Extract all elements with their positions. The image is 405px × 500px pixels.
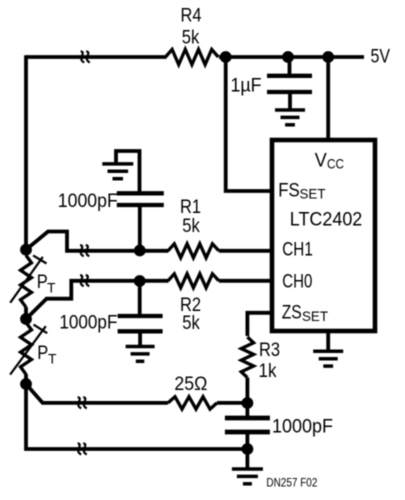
svg-text:5V: 5V	[371, 45, 391, 67]
label R2	[180, 294, 201, 316]
junction node A dot (CH1 tap)	[20, 244, 32, 256]
label C3 1000pF	[59, 312, 117, 334]
pin label FSSET	[278, 180, 326, 202]
label R1 value 5k	[182, 215, 200, 237]
svg-text:T: T	[48, 351, 57, 367]
capacitor C3 1000pF	[118, 281, 163, 331]
svg-text:1000pF: 1000pF	[58, 190, 118, 212]
junction node C dot (25ohm tap)	[20, 378, 32, 390]
label R3	[259, 339, 280, 361]
wire PT1 to node B	[24, 307, 28, 319]
svg-text:5k: 5k	[182, 312, 200, 334]
capacitor C1 1uF	[267, 57, 312, 92]
svg-text:ZS: ZS	[282, 302, 302, 324]
potentiometer PT2 (platinum RTD)	[21, 323, 32, 375]
svg-text:1000pF: 1000pF	[59, 312, 117, 334]
label DN257 F02	[266, 478, 317, 490]
label C4 1000pF	[272, 416, 333, 438]
label PT2	[37, 342, 57, 367]
wire ZSSET net	[247, 313, 270, 336]
wire left rail upper segment	[24, 55, 28, 250]
svg-text:CC: CC	[327, 156, 344, 172]
svg-text:V: V	[315, 150, 327, 172]
capacitor C4 1000pF	[225, 403, 270, 449]
label R1	[180, 196, 201, 218]
svg-text:5k: 5k	[182, 215, 200, 237]
wire break mark CH0	[80, 275, 89, 286]
label R4 value 5k	[182, 27, 200, 49]
wire R3 to cap node	[245, 378, 249, 403]
capacitor C2 1000pF	[117, 193, 164, 250]
svg-text:1000pF: 1000pF	[272, 416, 333, 438]
ground for LTC2402	[313, 331, 343, 366]
svg-text:SET: SET	[302, 308, 328, 324]
label R4	[181, 4, 202, 26]
svg-text:P: P	[37, 342, 48, 364]
resistor R3	[241, 337, 253, 378]
svg-text:T: T	[47, 280, 56, 296]
pin label VCC	[315, 150, 344, 172]
resistor R5 25ohm	[168, 397, 217, 409]
pin label CH1	[282, 239, 313, 261]
wire left rail lower + bottom rail	[26, 384, 247, 449]
svg-text:LTC2402: LTC2402	[290, 209, 363, 231]
trimmer bar PT1	[10, 255, 46, 302]
svg-text:1k: 1k	[259, 360, 277, 382]
pin label ZSSET	[282, 302, 329, 324]
wire CH0 net left tap	[26, 281, 169, 319]
wire VCC stem	[326, 57, 330, 140]
potentiometer PT1 (platinum RTD)	[21, 255, 32, 307]
junction node B dot (CH0 tap)	[20, 313, 32, 325]
junction dot top-rail/VCC	[322, 51, 334, 63]
label 1uF	[231, 74, 262, 96]
resistor R1	[168, 244, 219, 258]
label PT1	[37, 271, 56, 296]
svg-text:1µF: 1µF	[231, 74, 262, 96]
ground wire for C2	[116, 151, 140, 192]
label R3 value 1k	[259, 360, 277, 382]
wire 25ohm net	[26, 384, 247, 403]
IC U1 LTC2402 box	[272, 140, 375, 331]
svg-text:FS: FS	[278, 180, 300, 202]
junction dot top-rail/FSSET	[220, 51, 232, 63]
svg-text:SET: SET	[300, 186, 326, 202]
ground for C2	[102, 164, 133, 179]
junction dot bottom rail/C4	[242, 443, 254, 455]
resistor R2	[168, 274, 219, 288]
wire break mark on bottom rail	[78, 443, 87, 454]
wire R1 to CH1 pin	[219, 249, 270, 253]
ground for 1uF	[275, 92, 305, 125]
wire 5V top rail right	[219, 55, 364, 59]
ground for C4	[232, 449, 263, 484]
trimmer bar PT2	[10, 325, 47, 375]
wire CH1 net left tap	[26, 232, 169, 251]
wire R2 to CH0 pin	[219, 279, 270, 283]
wire 5V top rail left	[26, 55, 167, 59]
wire PT2 to node C	[24, 374, 28, 384]
ground for C3	[126, 331, 155, 361]
wire break mark on top rail	[81, 51, 90, 62]
svg-text:R4: R4	[181, 4, 202, 26]
junction dot CH0/C3	[134, 275, 146, 287]
label LTC2402	[290, 209, 363, 231]
pin label CH0	[282, 270, 312, 292]
svg-text:CH1: CH1	[282, 239, 313, 261]
svg-text:DN257 F02: DN257 F02	[266, 478, 317, 490]
svg-text:25Ω: 25Ω	[174, 373, 207, 395]
resistor R4	[166, 49, 219, 64]
svg-text:5k: 5k	[182, 27, 200, 49]
junction dot R3/C4	[242, 397, 254, 409]
svg-text:CH0: CH0	[282, 270, 312, 292]
label 25ohm	[174, 373, 207, 395]
label C2 1000pF	[58, 190, 118, 212]
wire break mark CH1	[80, 245, 89, 256]
junction dot top-rail/1uF	[282, 51, 294, 63]
label R2 value 5k	[182, 312, 200, 334]
svg-text:R3: R3	[259, 339, 280, 361]
node 5V label	[371, 45, 391, 67]
wire FSSET net	[226, 57, 270, 191]
junction dot CH1/C2	[134, 245, 146, 257]
wire break mark 25ohm	[78, 397, 87, 408]
